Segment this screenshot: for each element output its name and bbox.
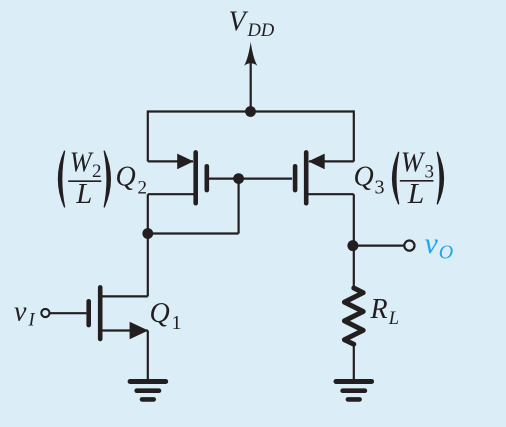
label Q1: [150, 298, 182, 334]
wire gate feedback horizontal: [148, 232, 239, 234]
wire gate bus to Q3: [239, 178, 293, 180]
transistor Q2 (PMOS): [148, 152, 239, 203]
wire Q1 source to ground: [147, 331, 149, 380]
wire Q3 source to rail (right vertical upper): [353, 110, 355, 161]
node junction dot on top rail: [245, 106, 256, 117]
node output junction dot: [347, 240, 358, 251]
wire gate feedback vertical: [238, 179, 240, 234]
resistor RL: [344, 288, 363, 344]
svg-text:3: 3: [375, 176, 385, 198]
wire output stub: [354, 245, 404, 247]
node VDD label: [229, 7, 275, 41]
label vI: [14, 296, 36, 330]
svg-text:Q: Q: [116, 162, 136, 193]
svg-text:L: L: [388, 309, 399, 329]
VDD supply arrow: [244, 42, 257, 112]
label Q3: [354, 162, 385, 199]
wire Q2 source to rail (left vertical upper): [147, 110, 149, 161]
terminal vI open circle: [41, 309, 49, 317]
node drain-gate junction dot: [142, 228, 153, 239]
label (W2/L) fraction: [59, 147, 111, 210]
svg-text:Q: Q: [354, 162, 374, 193]
ground left: [130, 382, 166, 400]
label RL: [370, 294, 400, 329]
svg-text:DD: DD: [247, 21, 275, 41]
label (W3/L) fraction: [393, 147, 444, 210]
svg-text:2: 2: [92, 161, 102, 182]
svg-text:V: V: [229, 7, 249, 38]
svg-text:O: O: [439, 241, 453, 263]
wire resistor to ground: [353, 344, 355, 379]
wire Q3 drain down to output node (right vertical): [353, 194, 355, 288]
svg-text:1: 1: [172, 312, 182, 334]
svg-text:v: v: [425, 227, 439, 260]
svg-text:L: L: [75, 179, 92, 210]
svg-text:I: I: [28, 311, 36, 331]
label Q2: [116, 162, 148, 199]
svg-text:2: 2: [138, 177, 148, 198]
node gate junction dot: [233, 173, 244, 184]
ground right: [336, 382, 372, 400]
terminal vO open circle: [404, 241, 414, 251]
wire Q2 drain down to Q1 drain (left vertical lower): [147, 194, 149, 296]
svg-text:R: R: [370, 294, 388, 325]
label vO: [425, 227, 454, 263]
svg-text:W: W: [70, 147, 94, 178]
wire vI to gate: [50, 312, 87, 314]
svg-text:3: 3: [425, 162, 435, 183]
wire top rail: [148, 110, 354, 112]
svg-text:v: v: [14, 296, 27, 327]
transistor Q3 (PMOS): [295, 152, 354, 203]
svg-text:Q: Q: [150, 298, 170, 329]
transistor Q1 (NMOS): [89, 287, 149, 339]
svg-text:W: W: [401, 147, 426, 178]
svg-text:L: L: [407, 179, 425, 210]
